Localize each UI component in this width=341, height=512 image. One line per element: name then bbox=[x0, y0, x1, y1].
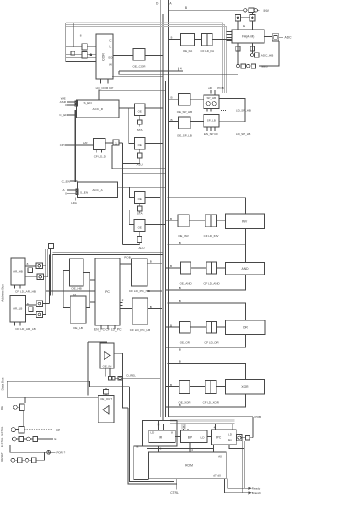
svg-text:B: B bbox=[170, 323, 172, 327]
svg-text:NEG: NEG bbox=[261, 65, 268, 69]
svg-text:8: 8 bbox=[80, 34, 82, 38]
svg-text:4: 4 bbox=[214, 426, 216, 430]
svg-text:AR_LB: AR_LB bbox=[13, 307, 22, 311]
svg-text:CF LD_AR_HB: CF LD_AR_HB bbox=[15, 289, 36, 293]
svg-text:OE_XOR: OE_XOR bbox=[178, 400, 190, 404]
svg-text:INV: INV bbox=[242, 220, 248, 224]
svg-text:N: N bbox=[183, 426, 185, 430]
svg-text:C_EN: C_EN bbox=[62, 179, 70, 183]
svg-text:CP: CP bbox=[60, 143, 64, 147]
svg-text:0: 0 bbox=[65, 103, 67, 107]
svg-text:AR_HB: AR_HB bbox=[13, 270, 23, 274]
svg-text:Ready: Ready bbox=[252, 487, 261, 491]
svg-text:XOR: XOR bbox=[241, 385, 249, 389]
svg-text:4: 4 bbox=[191, 448, 193, 452]
svg-text:L/R: L/R bbox=[83, 141, 88, 145]
svg-text:S_EN: S_EN bbox=[80, 191, 88, 195]
svg-text:E: E bbox=[0, 445, 4, 447]
svg-text:8: 8 bbox=[158, 422, 160, 426]
svg-text:CF LD_AR_LB: CF LD_AR_LB bbox=[15, 327, 35, 331]
svg-text:B: B bbox=[170, 264, 172, 268]
svg-text:PC: PC bbox=[105, 290, 110, 294]
svg-text:OE: OE bbox=[138, 197, 142, 201]
svg-text:CF LD_AND: CF LD_AND bbox=[203, 281, 219, 285]
svg-text:E0: E0 bbox=[109, 56, 113, 60]
svg-text:SP_LB: SP_LB bbox=[207, 119, 216, 123]
svg-text:CF LD_FA: CF LD_FA bbox=[201, 49, 215, 53]
svg-text:CF LD_PC: CF LD_PC bbox=[106, 327, 123, 331]
svg-text:CF LD_OR: CF LD_OR bbox=[204, 341, 218, 345]
svg-text:OE: OE bbox=[138, 143, 142, 147]
svg-text:B: B bbox=[170, 96, 172, 100]
svg-text:A0: A0 bbox=[218, 454, 222, 458]
svg-text:1: 1 bbox=[115, 141, 117, 145]
svg-text:B: B bbox=[179, 347, 181, 351]
svg-text:STA: STA bbox=[137, 212, 144, 216]
svg-text:LD_COR CP: LD_COR CP bbox=[96, 86, 114, 90]
svg-text:ACC_A: ACC_A bbox=[92, 188, 103, 192]
svg-text:ACC_R: ACC_R bbox=[93, 107, 104, 111]
svg-text:CF LD_INV: CF LD_INV bbox=[204, 234, 219, 238]
svg-text:OE_HB: OE_HB bbox=[71, 287, 82, 291]
svg-text:OE: OE bbox=[0, 406, 4, 410]
svg-text:CTRL: CTRL bbox=[170, 491, 179, 495]
svg-text:E: E bbox=[137, 444, 139, 448]
svg-text:E: E bbox=[55, 437, 57, 441]
svg-text:OE_LB: OE_LB bbox=[73, 326, 83, 330]
svg-text:4: 4 bbox=[180, 67, 182, 71]
svg-text:ADC_HB: ADC_HB bbox=[261, 54, 274, 58]
svg-text:OE_OR: OE_OR bbox=[180, 341, 190, 345]
svg-text:LD_SP_LB: LD_SP_LB bbox=[236, 132, 250, 136]
svg-text:En: En bbox=[228, 438, 232, 442]
svg-text:ALU: ALU bbox=[137, 163, 143, 167]
svg-text:ROM: ROM bbox=[185, 464, 193, 468]
svg-text:16: 16 bbox=[73, 293, 77, 297]
svg-text:EN_SP CF: EN_SP CF bbox=[204, 132, 218, 136]
svg-text:B: B bbox=[170, 383, 172, 387]
svg-text:D_REL: D_REL bbox=[127, 374, 137, 378]
svg-text:EN_PC: EN_PC bbox=[94, 327, 106, 331]
svg-text:OE_FA: OE_FA bbox=[183, 49, 192, 53]
svg-text:COR: COR bbox=[102, 53, 106, 61]
svg-text:OE_IN: OE_IN bbox=[103, 364, 112, 368]
svg-text:AND: AND bbox=[242, 267, 250, 271]
svg-text:L: L bbox=[110, 45, 112, 49]
svg-text:SP_HB: SP_HB bbox=[207, 96, 217, 100]
svg-text:OE: OE bbox=[138, 225, 142, 229]
svg-text:Branch: Branch bbox=[252, 491, 262, 495]
svg-text:POB: POB bbox=[255, 415, 262, 419]
svg-text:E: E bbox=[243, 24, 245, 28]
svg-text:W: W bbox=[109, 63, 112, 67]
svg-text:OR: OR bbox=[243, 326, 249, 330]
svg-text:OE_SP_LB: OE_SP_LB bbox=[177, 133, 192, 137]
svg-text:LDA: LDA bbox=[71, 201, 77, 205]
svg-text:CF LD_PC_LB: CF LD_PC_LB bbox=[130, 328, 150, 332]
svg-text:STA: STA bbox=[137, 128, 144, 132]
svg-text:Data Bus: Data Bus bbox=[1, 377, 5, 390]
svg-text:FA(A-M): FA(A-M) bbox=[242, 35, 254, 39]
svg-text:B: B bbox=[179, 360, 181, 364]
svg-text:IPC: IPC bbox=[216, 435, 222, 439]
svg-text:0: 0 bbox=[65, 192, 67, 196]
svg-text:CF LD_XOR: CF LD_XOR bbox=[203, 400, 219, 404]
svg-text:CP LD_D: CP LD_D bbox=[94, 155, 106, 159]
svg-text:C_EN: C_EN bbox=[59, 113, 67, 117]
svg-text:2: 2 bbox=[122, 298, 124, 302]
svg-text:OE_OUT: OE_OUT bbox=[100, 397, 112, 401]
svg-text:B: B bbox=[179, 286, 181, 290]
svg-text:OE_AND: OE_AND bbox=[180, 281, 192, 285]
svg-text:ADC: ADC bbox=[285, 35, 293, 39]
svg-text:RESET: RESET bbox=[0, 452, 4, 462]
svg-text:8: 8 bbox=[27, 262, 29, 266]
svg-text:B: B bbox=[150, 260, 152, 264]
svg-text:OE_COR: OE_COR bbox=[132, 65, 146, 69]
svg-text:POR ?: POR ? bbox=[57, 450, 66, 454]
svg-text:8: 8 bbox=[27, 302, 29, 306]
svg-text:INV: INV bbox=[264, 9, 270, 13]
svg-text:B: B bbox=[150, 305, 152, 309]
svg-text:S_EN: S_EN bbox=[84, 101, 92, 105]
svg-text:d7 d0: d7 d0 bbox=[213, 474, 221, 478]
svg-text:LD_SP_HB: LD_SP_HB bbox=[236, 109, 251, 113]
svg-text:CF LD_PC_HB: CF LD_PC_HB bbox=[129, 289, 150, 293]
svg-text:Address Bus: Address Bus bbox=[1, 284, 5, 302]
svg-text:POB: POB bbox=[217, 86, 224, 90]
svg-text:B: B bbox=[171, 36, 173, 40]
svg-text:XTAL: XTAL bbox=[0, 437, 4, 444]
svg-text:POB: POB bbox=[124, 255, 131, 259]
svg-text:CP: CP bbox=[56, 428, 60, 432]
svg-text:B: B bbox=[179, 241, 181, 245]
svg-text:B: B bbox=[179, 299, 181, 303]
svg-text:8: 8 bbox=[160, 446, 162, 450]
svg-text:OE: OE bbox=[138, 110, 142, 114]
svg-text:B: B bbox=[170, 217, 172, 221]
svg-text:B: B bbox=[170, 118, 172, 122]
svg-text:EXTAL: EXTAL bbox=[0, 426, 4, 435]
svg-text:OE_INV: OE_INV bbox=[178, 234, 189, 238]
svg-text:OE_SP_HB: OE_SP_HB bbox=[177, 110, 192, 114]
svg-text:8: 8 bbox=[171, 431, 173, 435]
svg-text:ALU: ALU bbox=[138, 246, 144, 250]
